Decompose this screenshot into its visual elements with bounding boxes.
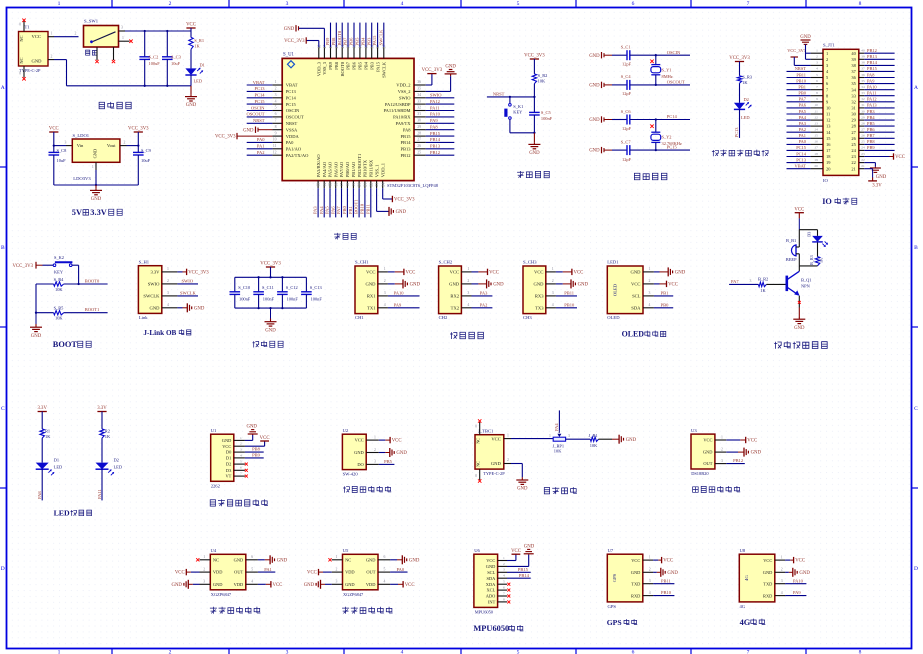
no-ERC mark (507, 583, 510, 586)
svg-text:6: 6 (251, 555, 253, 559)
svg-text:PB12: PB12 (733, 458, 743, 463)
wire LED branch (817, 230, 819, 236)
svg-text:SW-420: SW-420 (343, 472, 359, 477)
net label VCC_3V3 on pin 1 (806, 52, 811, 54)
svg-text:GPS: GPS (608, 604, 617, 609)
svg-text:PB6: PB6 (867, 127, 875, 132)
svg-text:0: 0 (475, 425, 477, 429)
pin 10 PA0 (left) (272, 141, 282, 143)
wire net PB0 (JT1 left) (787, 95, 811, 97)
svg-text:PB5: PB5 (384, 459, 393, 464)
svg-text:25: 25 (861, 140, 865, 144)
svg-text:D1: D1 (226, 456, 231, 461)
ground at VSS_2 (445, 65, 457, 77)
svg-text:GND: GND (396, 451, 407, 456)
svg-text:33: 33 (861, 91, 865, 95)
svg-text:PB6: PB6 (352, 61, 357, 70)
SW1 bottom pin stubs with no-ERC marks (96, 47, 98, 60)
wire to R4 (36, 283, 54, 285)
pin 19 (left) of S_JT1 (811, 162, 823, 164)
pin 34 (right) of S_JT1 (859, 89, 865, 91)
svg-text:LED: LED (741, 115, 750, 120)
wire PA10 (388, 295, 420, 297)
svg-text:GND: GND (396, 210, 407, 215)
svg-text:J_TBC1: J_TBC1 (478, 428, 494, 433)
svg-text:GND: GND (246, 425, 257, 430)
svg-text:2: 2 (169, 650, 172, 654)
wire net PA15 (top) (377, 23, 379, 47)
connector S_CH3 serial header (523, 266, 546, 314)
capacitor S_C9 10uF (137, 146, 139, 153)
svg-text:PA10/RX: PA10/RX (393, 115, 411, 120)
svg-text:GND: GND (589, 84, 600, 89)
svg-text:VCC: VCC (794, 207, 804, 212)
svg-text:5: 5 (503, 580, 505, 584)
wire LED to net PA8 (41, 469, 43, 500)
wire pin1 GND (245, 439, 253, 441)
wire PB0 (654, 307, 673, 309)
svg-text:PB13: PB13 (400, 147, 411, 152)
junction (281, 307, 283, 309)
junction (655, 118, 657, 120)
pin 25 (right) of S_JT1 (859, 143, 865, 145)
svg-text:XGZP6847: XGZP6847 (211, 592, 232, 597)
svg-text:30: 30 (861, 109, 865, 113)
wire to potentiometer (511, 438, 553, 440)
svg-text:12: 12 (826, 118, 830, 123)
svg-text:LED: LED (114, 464, 123, 469)
wire left branch down to buzzer (798, 230, 800, 247)
svg-text:VCC: VCC (763, 558, 772, 563)
svg-text:6: 6 (503, 586, 505, 590)
resistor S_R3 1K (737, 76, 741, 83)
junction (533, 96, 535, 98)
buzzer B_B1 BEEP (791, 245, 796, 256)
svg-text:VDDA: VDDA (286, 134, 300, 139)
svg-text:GND: GND (626, 438, 637, 443)
svg-text:GND: GND (265, 328, 276, 333)
ground U5 left (304, 580, 321, 589)
pin 4 of U5 (right) (378, 583, 390, 585)
svg-text:S_C4: S_C4 (621, 74, 632, 79)
wire BOOT0 (64, 283, 108, 285)
svg-text:36: 36 (417, 80, 421, 84)
pin 33 (right) of S_JT1 (859, 95, 865, 97)
connector T1 TYPE-C-2P (19, 32, 49, 67)
wire net PB8 (top) (335, 23, 337, 47)
svg-text:PB3: PB3 (369, 61, 374, 70)
svg-text:D2: D2 (744, 97, 749, 102)
wire to key S_K1 (509, 97, 511, 104)
wire net PA7 (bottom) (341, 188, 343, 217)
svg-text:10: 10 (814, 103, 818, 107)
no-ERC mark (245, 469, 248, 472)
svg-text:PA8: PA8 (867, 72, 875, 77)
svg-text:21: 21 (364, 183, 368, 187)
pin 9 VDDA (left) (272, 135, 282, 137)
svg-text:SWCLK: SWCLK (180, 290, 197, 295)
module U7 GPS (607, 554, 643, 602)
junction (166, 30, 168, 32)
svg-text:12pF: 12pF (622, 91, 632, 96)
svg-text:PA9: PA9 (394, 302, 402, 307)
svg-text:GND: GND (449, 282, 460, 287)
svg-text:6: 6 (384, 555, 386, 559)
svg-text:1: 1 (507, 433, 509, 437)
svg-text:PB7: PB7 (343, 37, 348, 46)
wire net PB14 (426, 141, 455, 143)
svg-text:PB13: PB13 (430, 144, 441, 149)
wire net PC15 (247, 103, 273, 105)
junction (77, 283, 79, 285)
wire net PA5 (JT1 left) (787, 113, 811, 115)
svg-text:PA5: PA5 (799, 109, 807, 114)
svg-text:25: 25 (417, 150, 421, 154)
svg-text:VCC: VCC (486, 558, 495, 563)
connector S_CH1 serial header (355, 266, 378, 314)
svg-text:PC13: PC13 (254, 86, 265, 91)
svg-text:1K: 1K (819, 258, 824, 263)
svg-text:SWCLK: SWCLK (382, 61, 387, 78)
svg-text:VDD_1: VDD_1 (380, 163, 385, 177)
pin 12 (left) of S_JT1 (811, 119, 823, 121)
label 5V转3.3V电路 (72, 208, 122, 217)
wire D1 net PB9 (245, 457, 264, 459)
pin 30 (right) of S_JT1 (859, 113, 865, 115)
wire net PC14 (247, 97, 273, 99)
svg-text:16: 16 (334, 183, 338, 187)
svg-text:0: 0 (475, 474, 477, 478)
svg-text:BOOT0: BOOT0 (337, 30, 342, 45)
ground U7 (661, 568, 679, 577)
pin 11 (left) of S_JT1 (811, 113, 823, 115)
wire GND to pin 2 (805, 44, 807, 59)
svg-text:OLED: OLED (613, 283, 618, 296)
ground filter (270, 308, 272, 319)
svg-text:B: B (1, 245, 5, 251)
wire pin4 to GND (177, 307, 182, 309)
svg-text:12pF: 12pF (622, 157, 632, 162)
no-ERC mark (507, 595, 510, 598)
svg-text:34: 34 (861, 85, 865, 89)
svg-text:12pF: 12pF (622, 126, 632, 131)
VCC_3V3 power symbol J-Link (187, 269, 210, 276)
wire SCL net PB15 (507, 571, 531, 573)
svg-text:D: D (1, 566, 5, 572)
svg-text:PB11/RX: PB11/RX (369, 159, 374, 177)
svg-text:15: 15 (329, 183, 333, 187)
svg-text:PA3: PA3 (480, 290, 488, 295)
svg-text:VDD: VDD (234, 582, 244, 587)
wire net PB14 (JT1 right) (864, 64, 894, 66)
svg-text:4G: 4G (740, 618, 751, 627)
label IO拓展口 (822, 197, 857, 206)
svg-text:OUT: OUT (366, 570, 375, 575)
pin 42 PB6 (top) (353, 47, 355, 58)
wire PA3 (472, 295, 493, 297)
switch S_K1 KEY (509, 104, 512, 107)
wire pot to R1 (566, 438, 591, 440)
svg-text:PA9/TX: PA9/TX (396, 121, 412, 126)
svg-text:D1: D1 (200, 62, 205, 67)
svg-text:1: 1 (122, 36, 124, 40)
svg-text:2: 2 (169, 1, 172, 7)
label OLED显示屏 (622, 330, 666, 339)
VCC power U8 (794, 557, 805, 564)
svg-text:PB11: PB11 (796, 72, 806, 77)
svg-text:OSCOUT: OSCOUT (286, 115, 304, 120)
pin 26 PB13 (right) (414, 148, 426, 150)
svg-text:R1: R1 (45, 428, 50, 433)
svg-text:36: 36 (861, 73, 865, 77)
svg-text:PB8: PB8 (867, 139, 875, 144)
svg-text:IO: IO (823, 178, 829, 183)
svg-text:GND: GND (222, 438, 232, 443)
svg-text:PB12: PB12 (430, 150, 440, 155)
VCC power U5 right (403, 581, 414, 588)
wire net PA11 (JT1 right) (864, 95, 894, 97)
pin 5 OSCIN (left) (272, 110, 282, 112)
no-ERC mark (245, 463, 248, 466)
wire pin1 to GND (654, 271, 660, 273)
svg-text:23: 23 (375, 183, 379, 187)
ground U6 (528, 553, 530, 556)
regulator S_LDO1 LDO3V3 (72, 139, 120, 162)
net label PA4 rotated (558, 410, 560, 432)
svg-text:S_R1: S_R1 (194, 38, 204, 43)
connector S_JT1 IO expansion header (823, 49, 859, 175)
svg-text:100uF: 100uF (149, 61, 161, 66)
VCC_3V3 power symbol (524, 54, 545, 59)
svg-text:2: 2 (816, 55, 818, 59)
svg-text:VCC: VCC (574, 271, 584, 276)
ground (516, 478, 528, 492)
wire to capacitor S_C4 (612, 84, 627, 86)
wire pin4 VCC (390, 583, 398, 585)
wire pin1 VCC (379, 439, 386, 441)
svg-text:VCC: VCC (366, 270, 375, 275)
wire net PB5 (top) (359, 23, 361, 47)
pin 40 (right) of S_JT1 (859, 52, 865, 54)
wire LED D1 to ground rail (190, 75, 192, 86)
pin 21 (right) of S_JT1 (859, 168, 865, 170)
svg-text:PB9: PB9 (252, 453, 261, 458)
pin 23 VSS_1 (bottom) (376, 181, 378, 189)
svg-text:1: 1 (503, 556, 505, 560)
svg-text:VSS_3: VSS_3 (322, 61, 327, 75)
svg-text:1: 1 (336, 555, 338, 559)
wire to R3 (739, 62, 741, 76)
ground U5 right (402, 555, 420, 564)
svg-text:19: 19 (352, 183, 356, 187)
svg-text:4: 4 (649, 591, 651, 595)
wire filter top rail (235, 276, 307, 278)
svg-text:PB15: PB15 (430, 131, 441, 136)
ground (185, 94, 197, 108)
svg-text:KEY: KEY (54, 270, 64, 275)
ground U8 (793, 568, 811, 577)
svg-text:GND: GND (589, 54, 600, 59)
label J-Link OB接口 (143, 329, 191, 337)
svg-text:D2: D2 (226, 462, 231, 467)
svg-text:1: 1 (92, 165, 94, 169)
svg-text:PB7: PB7 (867, 133, 875, 138)
wire PA2 (472, 307, 493, 309)
svg-text:3: 3 (568, 434, 570, 438)
svg-text:VCC: VCC (405, 583, 415, 588)
pin 1 T1 VCC (48, 36, 54, 38)
pin 11 PA1/AO (left) (272, 148, 282, 150)
wire VCC_3V3 stem to rail (270, 267, 272, 277)
wire SDA net PB14 (507, 577, 531, 579)
svg-text:39: 39 (861, 55, 865, 59)
svg-text:1K: 1K (742, 80, 748, 85)
pin 38 PA15 (top) (377, 47, 379, 58)
wire net PA6 (bottom) (335, 188, 337, 217)
label LED灯电路 (54, 509, 92, 518)
wire RXD net PB10 (653, 595, 674, 597)
pin 15 (left) of S_JT1 (811, 137, 823, 139)
svg-text:28: 28 (861, 121, 865, 125)
wire pin2 GND (785, 571, 789, 573)
svg-text:D: D (914, 566, 918, 572)
svg-text:PC15: PC15 (286, 102, 297, 107)
svg-text:PA1: PA1 (799, 133, 806, 138)
ground (265, 320, 277, 334)
wire pin6 GND (258, 559, 265, 561)
svg-text:U7: U7 (608, 548, 614, 553)
wire net PA8 (426, 129, 455, 131)
resistor S_R4 10K (54, 282, 64, 286)
svg-text:1: 1 (552, 267, 554, 271)
wire PB1 (654, 295, 673, 297)
no-ERC mark (245, 475, 248, 478)
svg-text:OUT: OUT (234, 570, 243, 575)
wire net PB9 (JT1 right) (864, 149, 894, 151)
svg-text:4: 4 (401, 650, 404, 654)
svg-text:VCC: VCC (795, 559, 805, 564)
connector S_H1 J-Link (138, 266, 161, 314)
svg-text:OSCOUT: OSCOUT (667, 80, 685, 85)
svg-text:GND: GND (524, 544, 535, 549)
svg-text:GND: GND (304, 583, 315, 588)
svg-text:PA7: PA7 (336, 206, 341, 214)
VCC power S_CH2 (488, 269, 499, 276)
svg-text:GND: GND (534, 282, 545, 287)
svg-text:3.3V: 3.3V (97, 406, 107, 411)
svg-text:23: 23 (861, 152, 865, 156)
svg-text:VCC: VCC (489, 271, 499, 276)
pin 2 T1 GND (48, 59, 54, 61)
svg-text:SWIO: SWIO (430, 93, 442, 98)
svg-text:100nF: 100nF (263, 296, 275, 301)
svg-text:PB15: PB15 (400, 134, 411, 139)
svg-text:S_C2: S_C2 (149, 55, 159, 60)
module U3 DS18B20 (691, 434, 715, 469)
svg-text:VSS_2: VSS_2 (398, 89, 411, 94)
svg-text:VT: VT (225, 474, 231, 479)
svg-text:GND: GND (578, 283, 589, 288)
svg-text:100nF: 100nF (541, 116, 553, 121)
svg-text:3: 3 (336, 580, 338, 584)
pin 1 (left) of S_JT1 (811, 52, 823, 54)
svg-text:PB11: PB11 (564, 290, 574, 295)
svg-text:PB0: PB0 (342, 205, 347, 214)
capacitor S_C10 100nF (234, 277, 236, 292)
svg-text:GND: GND (589, 149, 600, 154)
svg-text:VCC: VCC (895, 155, 905, 160)
svg-text:8: 8 (816, 91, 818, 95)
svg-text:34: 34 (417, 93, 421, 97)
svg-text:3: 3 (816, 61, 818, 65)
pin 15 PA5/AO (bottom) (329, 181, 331, 189)
resistor J_R1 10K (590, 437, 598, 441)
svg-text:PA7: PA7 (799, 97, 807, 102)
svg-text:R2: R2 (105, 428, 110, 433)
label 4G模块 (740, 618, 766, 627)
svg-text:VSSA: VSSA (286, 127, 298, 132)
switch S_K2 KEY (53, 264, 56, 267)
wire VDD_3 to VCC_3V3 (318, 41, 320, 48)
pin 2 of U4 (left) (200, 571, 211, 573)
svg-text:PA7: PA7 (731, 279, 739, 284)
svg-text:8: 8 (503, 597, 505, 601)
svg-text:29: 29 (861, 115, 865, 119)
crystal S_Y1 8MHz (655, 55, 657, 64)
label 晶振电路 (634, 173, 667, 180)
svg-text:PA15: PA15 (375, 61, 380, 72)
svg-text:PA6: PA6 (799, 103, 807, 108)
ground alarm (798, 308, 800, 318)
pin 29 PA8 (right) (414, 129, 426, 131)
svg-text:U1: U1 (211, 428, 217, 433)
label 无线遥控器模块 (210, 499, 268, 506)
VCC power symbol at pin 23 (894, 153, 905, 160)
svg-text:0: 0 (19, 23, 21, 27)
svg-text:VCC_3V3: VCC_3V3 (260, 262, 281, 267)
pin 47 VSS_3 (top) (323, 47, 325, 58)
svg-text:PA0: PA0 (257, 137, 265, 142)
svg-text:1K: 1K (760, 288, 766, 293)
pin 6 OSCOUT (left) (272, 116, 282, 118)
svg-text:VBAT: VBAT (253, 80, 265, 85)
svg-text:GND: GND (91, 197, 102, 202)
svg-text:PA0: PA0 (799, 139, 807, 144)
svg-text:17: 17 (340, 183, 344, 187)
svg-text:18: 18 (814, 152, 818, 156)
svg-text:T1: T1 (25, 25, 31, 30)
svg-text:13: 13 (317, 183, 321, 187)
svg-text:3: 3 (240, 448, 242, 452)
svg-text:2: 2 (384, 279, 386, 283)
svg-text:INT: INT (488, 600, 496, 605)
VCC_3V3 power symbol at VDD_1 (392, 196, 415, 203)
svg-text:3: 3 (275, 93, 277, 97)
capacitor S_C13 100nF (305, 277, 307, 292)
svg-text:10K: 10K (590, 443, 598, 448)
wire pin2 to GND (388, 283, 395, 285)
svg-text:S_C12: S_C12 (286, 285, 298, 290)
svg-text:MPU6050: MPU6050 (473, 624, 509, 633)
svg-text:PA3: PA3 (799, 121, 807, 126)
pin 8 (left) of S_JT1 (811, 95, 823, 97)
wire net PA1 (JT1 left) (787, 137, 811, 139)
svg-text:A: A (914, 85, 918, 91)
pin 3 SW1 out (119, 30, 126, 32)
pin 17 PA7/AO (bottom) (341, 181, 343, 189)
svg-text:VCC: VCC (175, 571, 185, 576)
svg-text:PA8: PA8 (37, 491, 42, 499)
